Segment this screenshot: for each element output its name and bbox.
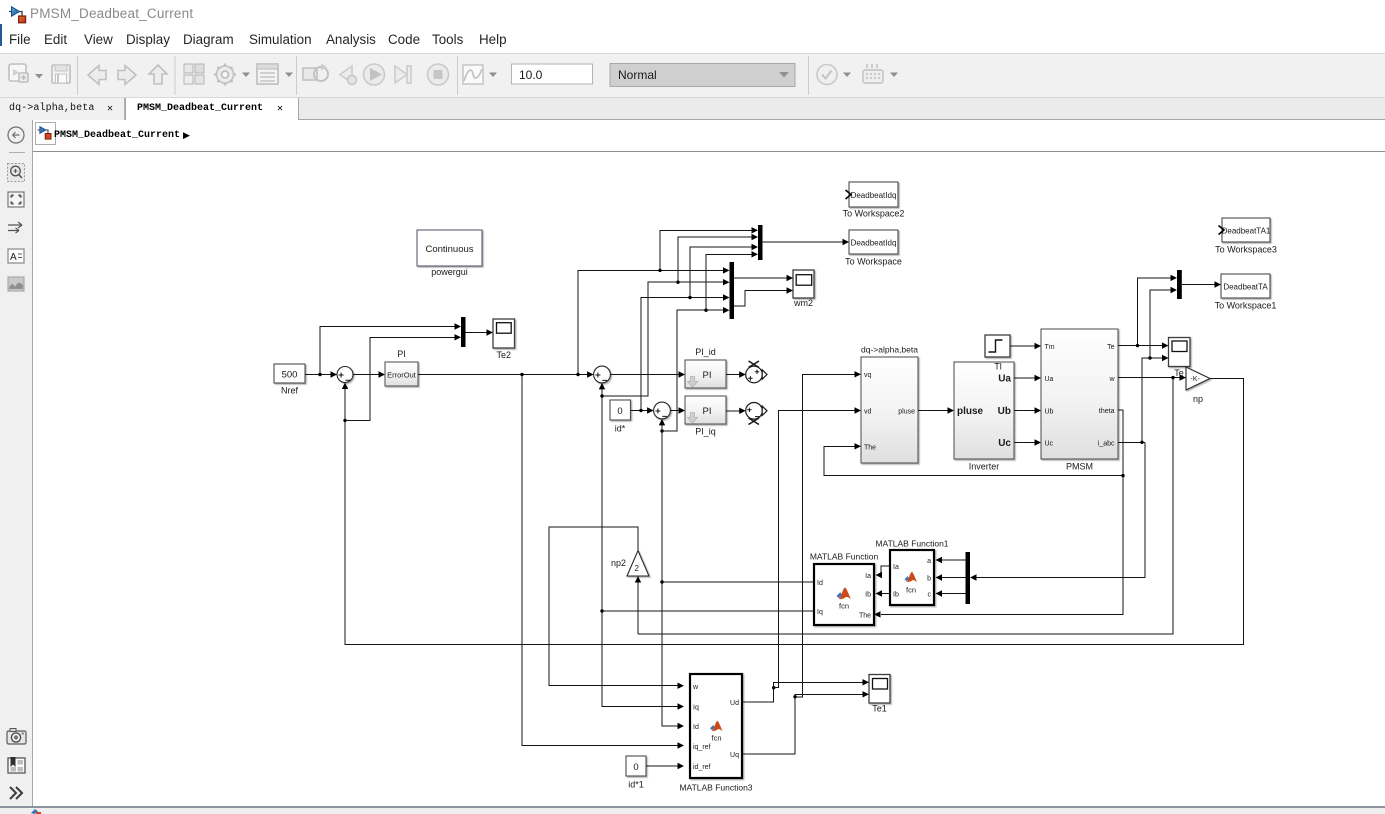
svg-text:-K-: -K- (1191, 376, 1201, 383)
sum block sum2 (594, 366, 611, 383)
wire mux2 to wm2 in1 (734, 277, 787, 279)
svg-text:500: 500 (282, 370, 298, 381)
demux (966, 552, 971, 604)
svg-text:Te: Te (1107, 344, 1115, 351)
step back (340, 66, 352, 83)
round sum rsum1 (++ , unconnected top port) (746, 361, 767, 383)
svg-text:2: 2 (635, 564, 640, 573)
svg-text:id*: id* (615, 424, 626, 434)
svg-text:Ub: Ub (998, 406, 1011, 417)
svg-text:fcn: fcn (906, 586, 916, 595)
subsystem PI_id (685, 347, 726, 388)
step block Tl (985, 335, 1010, 357)
gain np (1186, 367, 1210, 404)
new model icon (9, 64, 26, 81)
svg-text:vd: vd (864, 409, 872, 416)
svg-text:iq_ref: iq_ref (693, 744, 711, 751)
back circle arrow (y=134 page => 14 local) (8, 127, 24, 143)
sidebar (0, 120, 33, 806)
wire MF1 Ia to MF Ia (881, 566, 891, 575)
wire i_abc net (977, 290, 1171, 578)
mux1 (758, 225, 763, 260)
svg-text:PMSM: PMSM (1066, 462, 1093, 472)
up arrow (149, 65, 167, 84)
powergui block (417, 230, 482, 277)
svg-text:PI_iq: PI_iq (695, 427, 716, 437)
scope Te1 (869, 675, 890, 714)
wire Nref branch to mux4 in1 (320, 327, 455, 375)
wire iq* branch down to iq_ref (522, 375, 679, 746)
svg-text:To Workspace1: To Workspace1 (1215, 301, 1277, 311)
wire mux1 to To Workspace (763, 241, 843, 243)
svg-text:The: The (864, 445, 876, 452)
wire sum1 to PI(ErrorOut) (353, 374, 380, 376)
svg-text:Uc: Uc (1045, 441, 1054, 448)
svg-text:a: a (927, 558, 931, 565)
svg-text:dq->alpha,beta: dq->alpha,beta (861, 345, 918, 355)
svg-text:id*1: id*1 (628, 780, 644, 790)
tab strip (0, 97, 1385, 120)
separator (77, 56, 79, 95)
wire iq* branch to mux1 in1 (660, 230, 753, 270)
wire sum3 to PI_iq (670, 410, 679, 412)
time field (512, 64, 593, 84)
wire ErrorOut to sum2 (418, 374, 588, 376)
wire iq branch to mux column B (602, 237, 753, 396)
svg-text:np2: np2 (611, 558, 626, 568)
wire Id from MATLAB Function (662, 425, 814, 727)
forward arrow (118, 66, 136, 85)
svg-text:MATLAB Function1: MATLAB Function1 (875, 539, 948, 549)
MATLAB Function3 (679, 674, 752, 793)
To Workspace2 (843, 182, 905, 219)
wire demux to a (941, 559, 966, 561)
svg-text:Tl: Tl (994, 362, 1002, 372)
svg-text:Id: Id (693, 724, 699, 731)
svg-text:powergui: powergui (431, 267, 468, 277)
svg-text:Ia: Ia (865, 573, 871, 580)
svg-text:b: b (927, 576, 931, 583)
menu bar (0, 25, 1385, 53)
svg-text:DeadbeatIdq: DeadbeatIdq (851, 191, 897, 200)
svg-text:Iq: Iq (817, 609, 823, 616)
svg-text:A: A (10, 252, 17, 263)
wire id* to sum3 (631, 410, 649, 412)
svg-text:fcn: fcn (711, 734, 721, 743)
svg-text:ErrorOut: ErrorOut (387, 371, 417, 380)
MATLAB Function (810, 552, 879, 626)
step forward (395, 66, 407, 83)
svg-text:i_abc: i_abc (1098, 441, 1115, 448)
constant id* (0) (610, 400, 631, 434)
separator (296, 56, 298, 95)
wire Inverter Ua Ub Uc to PMSM (1014, 378, 1035, 443)
signal arrows (y=228 => 108) (8, 225, 22, 231)
subsystem PI_iq (685, 396, 726, 437)
wire Uq net (742, 374, 863, 754)
fit to view (y=200 => 80) (8, 192, 24, 207)
svg-text:Iq: Iq (693, 705, 699, 712)
wire Nref to sum1 (305, 374, 332, 376)
svg-text:Ib: Ib (893, 592, 899, 599)
build icon (863, 64, 883, 83)
wire Ud net (742, 411, 863, 703)
round sum rsum2 (+- , unconnected bottom port) (746, 403, 767, 425)
separator (457, 56, 459, 95)
library grid (184, 64, 204, 84)
svg-text:MATLAB Function: MATLAB Function (810, 552, 879, 562)
mux4 (461, 317, 466, 347)
svg-text:Ia: Ia (893, 564, 899, 571)
svg-text:c: c (928, 592, 932, 599)
svg-text:Tm: Tm (1045, 344, 1055, 351)
wire demux to b (941, 577, 966, 579)
gear (217, 66, 234, 83)
mux2 (730, 262, 735, 319)
save (52, 65, 70, 83)
svg-text:pluse: pluse (898, 409, 915, 416)
wire PI_id to rsum1 (726, 374, 740, 376)
svg-text:DeadbeatIdq: DeadbeatIdq (851, 239, 897, 248)
svg-text:0: 0 (633, 762, 638, 773)
svg-text:PI: PI (703, 370, 712, 381)
wire dq out to Inverter (918, 410, 948, 412)
svg-text:Uq: Uq (730, 752, 739, 759)
mux3 (1177, 270, 1182, 299)
svg-text:Te2: Te2 (496, 350, 511, 360)
svg-text:Continuous: Continuous (425, 244, 473, 255)
toolbar (0, 53, 1385, 98)
svg-text:The: The (859, 613, 871, 620)
wire Te net (1118, 278, 1171, 346)
title bar (0, 0, 1385, 4)
update diagram (303, 68, 317, 80)
subsystem PI (ErrorOut) (385, 349, 418, 386)
chevrons (y=793 => 673) (10, 787, 22, 799)
subsystem dq->alpha,beta (861, 345, 918, 464)
run (364, 64, 385, 85)
svg-text:theta: theta (1099, 408, 1115, 415)
sum block sum3 (654, 402, 671, 419)
wire id* branch up column C (641, 247, 753, 411)
camera (y=737 => 617) (7, 731, 26, 744)
svg-text:Ub: Ub (1045, 409, 1054, 416)
wire mux2 to wm2 in2 (734, 291, 787, 307)
layout/bookmark (y=764 => 644) (8, 758, 25, 773)
svg-text:DeadbeatTA1: DeadbeatTA1 (1222, 227, 1271, 236)
wire np2 out to MF3 w (549, 527, 679, 686)
svg-text:id_ref: id_ref (693, 764, 711, 771)
svg-text:Te1: Te1 (872, 704, 887, 714)
wire theta net (824, 410, 1123, 614)
annotation A= (y=256 => 136) (8, 249, 24, 263)
svg-text:DeadbeatTA: DeadbeatTA (1223, 283, 1268, 292)
wire MF1 Ib to MF Ib (881, 593, 891, 595)
wire step to PMSM Tm (1010, 345, 1035, 347)
back arrow (88, 66, 106, 85)
svg-text:MATLAB Function3: MATLAB Function3 (679, 783, 752, 793)
sim data display (463, 65, 483, 84)
separator (174, 56, 176, 95)
svg-text:wm2: wm2 (793, 298, 813, 308)
wire iq* branch up to mux row (578, 270, 724, 374)
svg-text:w: w (1108, 376, 1115, 383)
svg-text:Ua: Ua (1045, 376, 1054, 383)
svg-text:fcn: fcn (839, 602, 849, 611)
wire Iq from MATLAB Function (602, 389, 814, 707)
wire np feedback to sum1 (345, 337, 1244, 644)
svg-text:vq: vq (864, 372, 872, 379)
scope Te2 (493, 319, 515, 360)
constant id*1 (0) (626, 756, 646, 790)
scope Te (1169, 338, 1191, 379)
svg-text:Uc: Uc (998, 438, 1011, 449)
svg-text:PI: PI (703, 406, 712, 417)
To Workspace1 (1215, 274, 1277, 311)
wire PI_iq to rsum2 (726, 410, 740, 412)
wire sum2 to PI_id (610, 374, 679, 376)
stop (428, 64, 449, 85)
svg-text:w: w (692, 684, 699, 691)
wire id*1 to MF3 id_ref (646, 765, 679, 767)
wire mux4 to Te2 (466, 332, 487, 334)
svg-text:To Workspace3: To Workspace3 (1215, 245, 1277, 255)
wire id branch to mux column D (662, 254, 753, 431)
To Workspace3 (1215, 218, 1277, 255)
svg-text:Inverter: Inverter (969, 462, 1000, 472)
magnifier with dashed selection (y=172 page => 52) (8, 164, 25, 182)
svg-text:Nref: Nref (281, 386, 299, 396)
check circle (817, 65, 837, 85)
canvas (33, 152, 1385, 806)
constant Nref (500) (274, 364, 305, 396)
svg-text:Id: Id (817, 580, 823, 587)
svg-text:To Workspace: To Workspace (845, 257, 902, 267)
svg-text:PI_id: PI_id (695, 347, 716, 357)
svg-text:To Workspace2: To Workspace2 (843, 209, 905, 219)
svg-text:Ua: Ua (998, 374, 1011, 385)
wire demux to c (941, 593, 966, 595)
separator (9, 152, 25, 154)
subsystem PMSM (1041, 329, 1118, 472)
subsystem Inverter (954, 362, 1014, 472)
To Workspace (845, 230, 902, 267)
sum block sum1 (337, 367, 353, 383)
svg-text:Normal: Normal (618, 68, 657, 82)
normal dropdown (610, 64, 795, 87)
scope wm2 (793, 270, 814, 308)
svg-text:0: 0 (617, 406, 622, 417)
svg-text:10.0: 10.0 (519, 68, 543, 82)
MATLAB Function1 (875, 539, 948, 606)
breadcrumb (33, 120, 1385, 152)
model settings box (257, 64, 278, 84)
svg-text:Ud: Ud (730, 700, 739, 707)
image icon (y=284 => 164) (8, 277, 24, 291)
wire w net to np and np2 (638, 378, 1180, 634)
svg-text:pluse: pluse (957, 406, 984, 417)
gain np2 (pointing up) (611, 551, 649, 577)
svg-text:Ib: Ib (865, 592, 871, 599)
svg-text:PI: PI (397, 349, 406, 359)
arrowheads (331, 371, 338, 377)
svg-text:np: np (1193, 394, 1203, 404)
junction dots (318, 373, 321, 376)
wire mux3 to To Workspace1 (1182, 284, 1215, 286)
